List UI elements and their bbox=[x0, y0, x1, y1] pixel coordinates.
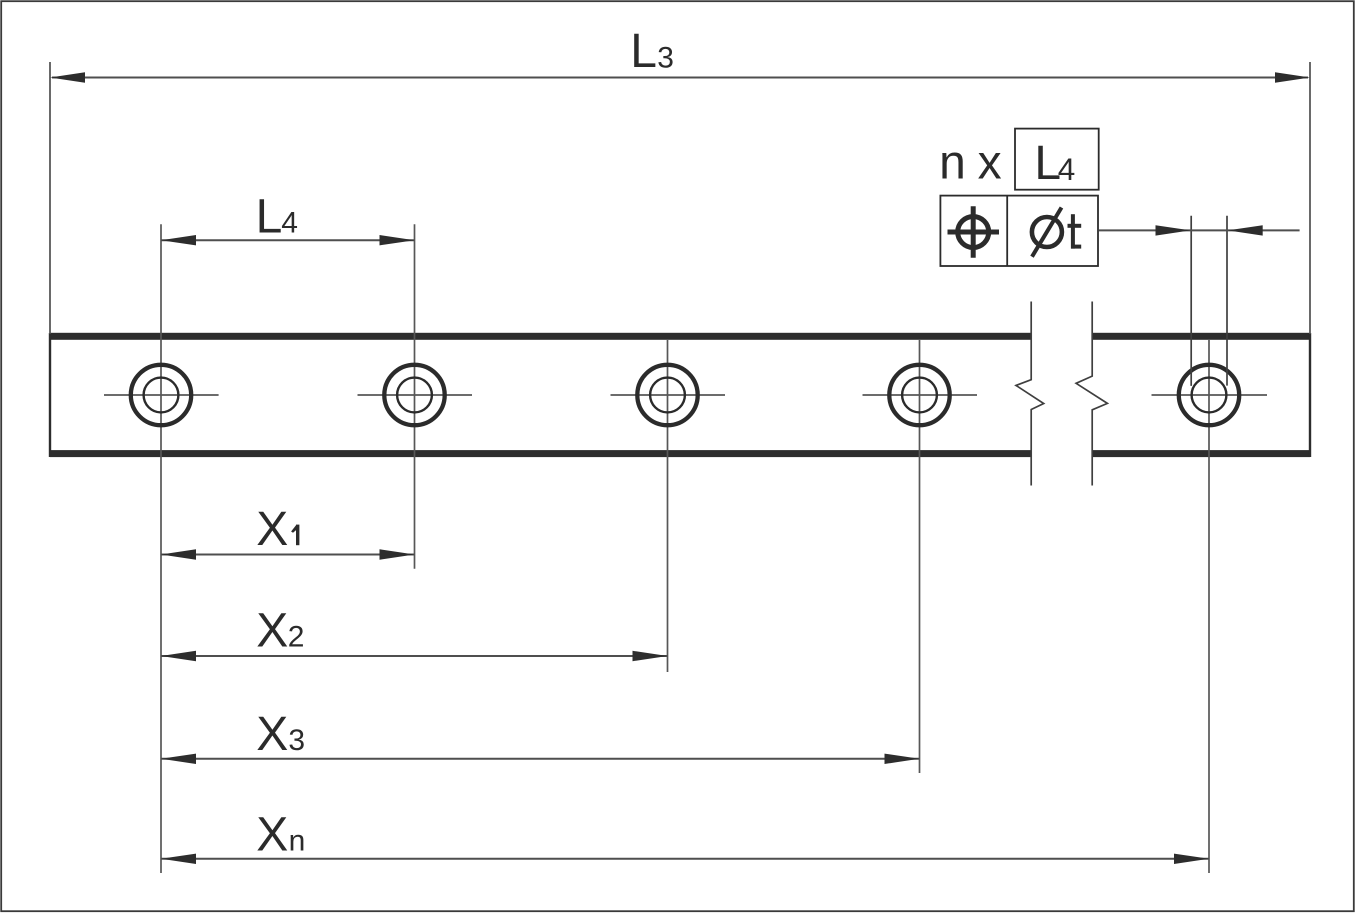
hole 5 bbox=[1179, 365, 1239, 425]
break line left bbox=[1016, 302, 1044, 486]
dimension X3 bbox=[161, 708, 920, 764]
hole 1 centerlines bbox=[104, 224, 219, 873]
svg-text:n: n bbox=[289, 825, 306, 858]
svg-text:X: X bbox=[256, 605, 288, 658]
svg-text:L: L bbox=[256, 191, 283, 244]
hole 5 centerlines bbox=[1152, 340, 1268, 873]
dimension L4 bbox=[161, 191, 415, 246]
hole 4 centerlines bbox=[863, 339, 978, 773]
dimension L3 bbox=[50, 25, 1310, 334]
svg-text:2: 2 bbox=[288, 621, 305, 654]
feature control frame bbox=[940, 196, 1098, 266]
svg-text:X: X bbox=[256, 503, 288, 556]
svg-text:3: 3 bbox=[657, 41, 674, 74]
svg-text:X: X bbox=[256, 708, 288, 761]
leader from feature control frame bbox=[1099, 225, 1300, 235]
svg-text:X: X bbox=[256, 808, 288, 861]
hole 1 bbox=[131, 365, 191, 425]
hole 3 bbox=[637, 365, 697, 425]
svg-text:n: n bbox=[939, 136, 966, 189]
hole 2 bbox=[384, 365, 444, 425]
svg-text:x: x bbox=[978, 136, 1002, 189]
rail outline bbox=[50, 333, 1310, 457]
dimension Xn bbox=[161, 808, 1209, 864]
svg-text:4: 4 bbox=[1058, 151, 1076, 187]
position tolerance symbol bbox=[948, 206, 1000, 257]
tolerance zone extension lines bbox=[1191, 216, 1227, 386]
break line right bbox=[1076, 302, 1107, 486]
label n x bbox=[939, 136, 1002, 189]
diameter t label bbox=[1032, 208, 1081, 257]
hole 4 bbox=[889, 365, 949, 425]
hole 3 centerlines bbox=[611, 339, 726, 672]
svg-text:L: L bbox=[630, 25, 657, 78]
dimension X2 bbox=[161, 605, 668, 662]
dimension X1 bbox=[161, 503, 415, 560]
basic dimension box L4 bbox=[1015, 129, 1099, 190]
svg-text:4: 4 bbox=[281, 207, 298, 240]
svg-text:3: 3 bbox=[288, 724, 305, 757]
hole 2 centerlines bbox=[358, 224, 473, 569]
